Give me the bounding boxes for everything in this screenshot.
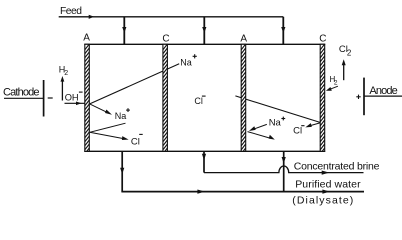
svg-text:Na: Na bbox=[180, 58, 192, 68]
svg-text:C: C bbox=[319, 33, 326, 44]
svg-text:(Dialysate): (Dialysate) bbox=[292, 194, 353, 206]
svg-text:C: C bbox=[162, 33, 169, 44]
svg-text:2: 2 bbox=[347, 48, 352, 57]
svg-text:Na: Na bbox=[115, 111, 127, 121]
svg-text:Cl: Cl bbox=[194, 96, 203, 106]
svg-text:Na: Na bbox=[269, 118, 282, 129]
svg-text:OH: OH bbox=[65, 92, 79, 102]
svg-text:A: A bbox=[240, 33, 247, 44]
svg-text:Purified water: Purified water bbox=[295, 179, 361, 191]
svg-text:2: 2 bbox=[64, 70, 68, 77]
svg-text:Cathode: Cathode bbox=[3, 86, 40, 98]
svg-text:Cl: Cl bbox=[131, 136, 140, 147]
svg-text:A: A bbox=[83, 32, 90, 43]
svg-text:Feed: Feed bbox=[60, 6, 82, 17]
svg-text:Concentrated brine: Concentrated brine bbox=[294, 161, 380, 173]
svg-text:Cl: Cl bbox=[293, 125, 302, 136]
svg-text:Anode: Anode bbox=[369, 85, 397, 97]
svg-text:2: 2 bbox=[334, 80, 338, 87]
